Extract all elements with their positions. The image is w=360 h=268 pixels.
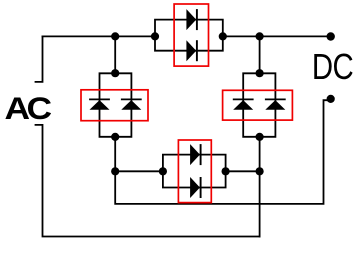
diode D3b (right pair, right branch, pointing up) [265,99,286,109]
diode D3a (right pair, left branch, pointing up) [233,99,254,109]
junction dot: top rail / top pair left node [151,32,159,40]
red outline box around top diode pair [174,4,208,66]
red outline box around left diode pair [81,90,148,121]
wire: AC top terminal hook [36,36,43,82]
wire: right pair bottom node riser down to AC bottom rail [259,137,261,237]
diode D1b (top pair, lower branch, pointing right) [186,40,197,61]
diode D1a (top pair, upper branch, pointing right) [186,9,197,30]
wire: DC- junction to bottom pair left node [115,170,163,172]
red outline box around right diode pair [223,90,293,120]
wire: bottom pair right node to right riser junction [226,170,260,172]
junction dot: right riser / bottom pair tie [256,167,264,175]
junction dot: left pair top node [111,69,119,77]
junction dot: right pair bottom node [256,133,264,141]
junction dot: bottom pair right node [222,167,230,175]
diode D4a (bottom pair, upper branch, pointing right) [190,144,201,165]
junction dot: left pair bottom node [111,133,119,141]
wire: bottom pair parallel branches frame [163,155,226,188]
svg-text:DC: DC [312,47,353,88]
diode D2b (left pair, right branch, pointing up) [121,99,142,109]
diode D2a (left pair, left branch, pointing up) [89,99,110,109]
wire: right pair parallel branches frame [243,73,275,137]
wire: AC bottom terminal hook and bottom rail [36,125,260,237]
terminal dot: DC minus output [327,95,335,103]
junction dot: top rail / right pair drop [256,32,264,40]
wire: left pair parallel branches frame [100,73,132,137]
wire: drop from top rail to left diode pair top node [114,36,116,73]
junction dot: bottom pair left node [159,167,167,175]
red outline box around bottom diode pair [178,140,211,203]
wire: left pair bottom node down to DC- junction [114,137,116,172]
wire: top rail left segment [43,35,156,37]
terminal dot: DC plus output [327,32,335,40]
junction dot: top rail / left pair drop [111,32,119,40]
junction dot: right pair top node [256,69,264,77]
wire: DC- path down and across to DC bottom terminal [115,100,327,204]
wire: top rail right segment [223,35,330,37]
svg-text:AC: AC [5,92,52,127]
diode D4b (bottom pair, lower branch, pointing right) [190,177,201,198]
wire: drop from top rail to right diode pair top node [259,36,261,73]
junction dot: DC- node left [111,167,119,175]
junction dot: top rail / top pair right node [219,32,227,40]
wire: top pair D1a/D1b parallel branches frame [155,20,223,51]
